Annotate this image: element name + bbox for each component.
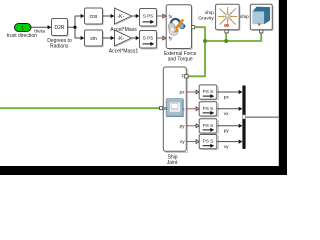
icon gravity center ball [225, 14, 230, 19]
wire py to mux [217, 124, 243, 128]
canvas background [0, 0, 287, 175]
block D2R (Degrees to Radians) [47, 19, 72, 50]
wire mux output [246, 116, 279, 118]
converter PS S 2 [199, 102, 218, 117]
wire branch to cos [75, 14, 84, 18]
PS stub Ship Joint py to PS S 3 [186, 124, 199, 128]
block cos [85, 8, 104, 25]
converter PS S 1 [199, 85, 218, 100]
PS stub Ship Joint px to PS S 1 [186, 90, 199, 94]
green frame branch to Gravity and ship solid [205, 33, 261, 41]
block External Force and Torque [166, 5, 192, 50]
port square Ship Joint F [185, 75, 188, 78]
icon planar joint [166, 99, 183, 117]
port square EF&T frame [191, 26, 194, 29]
svg-text:B: B [164, 106, 167, 112]
wire D2R output to branch [68, 26, 76, 28]
PS stub S PS 2 to fy [157, 36, 167, 40]
converter S PS 1 [140, 9, 158, 28]
PS stub Ship Joint vy to PS S 4 [186, 140, 199, 144]
svg-text:D2R: D2R [54, 25, 64, 31]
svg-text:1: 1 [21, 25, 24, 31]
svg-text:Gravity: Gravity [198, 15, 214, 21]
svg-text:vy: vy [224, 145, 229, 150]
svg-text:S PS: S PS [143, 14, 153, 19]
svg-text:ship: ship [205, 10, 214, 16]
block ship (Solid) [250, 4, 273, 30]
wire branch to sin [75, 36, 84, 40]
gain Accel*Mass [110, 8, 137, 33]
green frame wire EF&T to Ship Joint F [188, 27, 205, 76]
wire vy to mux [217, 140, 243, 144]
PS stub Ship Joint vx to PS S 2 [186, 107, 199, 111]
gain Accel*Mass1 [109, 30, 139, 54]
svg-text:ship: ship [240, 14, 249, 20]
label Ship Joint [167, 154, 178, 166]
wire gain to S PS converter 1 [132, 14, 140, 18]
converter S PS 2 [140, 31, 158, 50]
svg-text:py: py [224, 129, 230, 134]
inport 1 (trust direction) [7, 24, 37, 40]
svg-text:S PS: S PS [143, 36, 153, 41]
junction dot [73, 26, 76, 29]
svg-text:px: px [180, 91, 186, 96]
svg-text:trust direction: trust direction [7, 33, 37, 39]
converter PS S 4 [199, 135, 218, 150]
svg-text:vy: vy [180, 140, 185, 145]
green wire world to Ship Joint B [0, 107, 160, 109]
wire cos to gain Accel*Mass [103, 14, 115, 18]
mux output port handle [243, 115, 246, 119]
svg-text:F: F [181, 74, 184, 80]
svg-text:-K-: -K- [117, 36, 124, 42]
svg-text:PS S: PS S [203, 123, 213, 128]
icon blue cube [253, 7, 270, 24]
svg-text:Accel*Mass1: Accel*Mass1 [109, 48, 139, 54]
label External Force and Torque [164, 51, 197, 62]
block Ship Joint [163, 67, 187, 152]
icon External Force and Torque [168, 19, 186, 36]
icon gravity arrows [218, 7, 237, 26]
svg-text:py: py [180, 124, 186, 129]
svg-text:PS S: PS S [203, 106, 213, 111]
wire gain1 to S PS converter 2 [132, 36, 140, 40]
PS stub S PS 1 to fx [157, 14, 167, 18]
wire px to mux [217, 90, 243, 94]
svg-text:F: F [183, 24, 186, 29]
port square Ship Joint B [160, 107, 163, 110]
right black border bar [279, 0, 287, 175]
svg-text:PS S: PS S [203, 89, 213, 94]
svg-text:Joint: Joint [167, 160, 178, 166]
wire sin to gain Accel*Mass1 [103, 36, 115, 40]
block sin [85, 30, 104, 47]
svg-text:fy: fy [169, 35, 173, 41]
svg-text:cos: cos [89, 14, 97, 20]
svg-text:PS S: PS S [203, 139, 213, 144]
svg-text:px: px [224, 95, 230, 100]
svg-text:Radians: Radians [50, 43, 69, 49]
bottom black border bar [0, 166, 287, 175]
label ship Gravity [198, 10, 214, 21]
svg-text:sin: sin [90, 36, 97, 42]
mux [242, 85, 245, 149]
wire vx to mux [217, 107, 243, 111]
port square gravity bottom [225, 30, 228, 33]
svg-text:and Torque: and Torque [168, 56, 193, 62]
green drop from Gravity [225, 33, 227, 41]
svg-text:vx: vx [224, 112, 229, 117]
svg-text:-K-: -K- [117, 14, 124, 20]
converter PS S 3 [199, 119, 218, 134]
red x marker ship solid [258, 24, 260, 26]
red oo marker gravity [224, 24, 228, 26]
block ship Gravity (Mechanism Configuration) [216, 4, 240, 30]
wire branch vertical [74, 16, 76, 39]
wire theta: inport to D2R [31, 25, 51, 29]
green junction dots [203, 39, 207, 43]
port square ship solid bottom [260, 30, 263, 33]
